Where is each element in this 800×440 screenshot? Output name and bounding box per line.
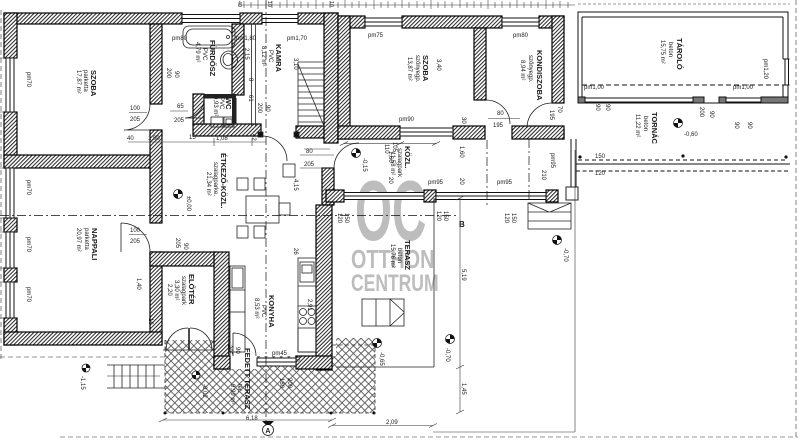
svg-text:pm1,20: pm1,20 — [762, 59, 768, 80]
svg-text:3,30 m²: 3,30 m² — [173, 280, 179, 300]
svg-text:40: 40 — [236, 1, 242, 7]
svg-text:TORNÁC: TORNÁC — [650, 112, 659, 145]
wall: elötér/konyha divider — [214, 252, 229, 369]
left boundary dashed — [0, 10, 2, 360]
left window dim ticks — [0, 58, 17, 318]
window band közl 2 — [436, 193, 546, 200]
level -0,02 elötér steps — [192, 371, 200, 379]
svg-text:beton: beton — [396, 248, 402, 263]
window konyha south — [257, 358, 296, 366]
svg-text:ÉTKEZŐ-KÖZL.: ÉTKEZŐ-KÖZL. — [219, 153, 228, 208]
svg-text:1,45: 1,45 — [460, 383, 466, 395]
svg-text:100: 100 — [130, 106, 141, 112]
svg-text:-0,60: -0,60 — [684, 132, 698, 138]
door arc wc — [185, 99, 204, 118]
svg-text:pm70: pm70 — [25, 72, 31, 88]
pier: közl band west — [326, 190, 344, 202]
konyha white floor over crosshatch — [214, 252, 336, 356]
wc small walls — [204, 94, 237, 124]
svg-text:pm1,70: pm1,70 — [287, 36, 308, 42]
wall: szoba/nappali divider — [4, 155, 162, 168]
svg-text:WC: WC — [224, 97, 233, 110]
svg-text:90: 90 — [746, 122, 752, 129]
wc toilet — [211, 117, 234, 127]
svg-text:205: 205 — [130, 117, 141, 123]
door arcs elötér entrance (double) — [166, 328, 189, 350]
svg-text:2,20: 2,20 — [166, 284, 172, 296]
svg-text:szőnyegp.: szőnyegp. — [414, 55, 420, 83]
svg-text:parketta: parketta — [82, 70, 88, 92]
level -0,70 terasz — [446, 335, 455, 344]
wall: wc left stub — [193, 94, 204, 124]
svg-text:PVC: PVC — [267, 50, 273, 63]
svg-text:-0,70: -0,70 — [444, 348, 450, 362]
svg-text:pm95: pm95 — [428, 180, 444, 186]
svg-text:20: 20 — [458, 178, 464, 185]
wall: right bldg left — [338, 16, 350, 139]
window pm70 left 4 — [6, 282, 14, 318]
svg-text:TERASZ: TERASZ — [403, 240, 412, 270]
svg-text:8,94 m²: 8,94 m² — [519, 60, 525, 80]
svg-text:30: 30 — [460, 117, 466, 124]
svg-text:8: 8 — [247, 78, 253, 82]
wall: right bldg bottom seg2 — [453, 126, 485, 139]
svg-text:4,79 m²: 4,79 m² — [194, 42, 200, 62]
svg-text:13,87 m²: 13,87 m² — [406, 57, 412, 81]
sink fürdősz — [221, 51, 238, 69]
svg-text:120: 120 — [435, 211, 441, 222]
svg-text:90: 90 — [234, 347, 240, 354]
svg-text:beton: beton — [667, 42, 673, 57]
center line vertical at 487 — [486, 140, 488, 205]
vertical line right of terasz — [574, 150, 576, 432]
svg-text:3,10: 3,10 — [292, 58, 298, 70]
dim wc row — [128, 138, 266, 146]
wall: szoba right / fürdősz left upper — [150, 24, 162, 104]
svg-text:8,12 m²: 8,12 m² — [260, 46, 266, 66]
svg-text:205: 205 — [304, 162, 315, 168]
svg-text:205: 205 — [130, 239, 141, 245]
wall: konyha south — [214, 356, 230, 369]
svg-text:2,09: 2,09 — [386, 420, 398, 426]
level markers — [82, 119, 683, 436]
tároló thin walls — [578, 12, 790, 103]
svg-text:180: 180 — [278, 378, 284, 389]
fraction lines for door labels — [129, 111, 520, 235]
wall: left outer, segment 5 — [4, 318, 17, 345]
svg-text:pm1,00: pm1,00 — [733, 85, 754, 91]
wall: kondiszoba divider — [474, 28, 486, 100]
svg-text:17,87 m²: 17,87 m² — [75, 70, 81, 94]
level -0,65 fedett terasz — [373, 339, 382, 348]
svg-text:90: 90 — [594, 104, 600, 111]
elötér threshold line — [163, 349, 214, 351]
svg-text:8,53 m²: 8,53 m² — [253, 298, 259, 318]
wall: left building top, segment 1 — [4, 13, 182, 24]
svg-text:15,76 m²: 15,76 m² — [389, 244, 395, 268]
terasz outline — [336, 198, 434, 367]
svg-text:200: 200 — [165, 68, 171, 79]
svg-text:A: A — [265, 428, 270, 435]
svg-text:pm70: pm70 — [25, 180, 31, 196]
dining table — [237, 164, 295, 238]
exterior steps left (fedett terasz) — [107, 365, 165, 388]
right boundary dashed — [795, 0, 797, 437]
wall: top right of kamra window — [298, 13, 338, 24]
svg-text:61: 61 — [247, 95, 253, 102]
section line B horizontal dashdot — [0, 215, 458, 217]
svg-text:szalagparke.: szalagparke. — [212, 162, 218, 196]
svg-text:90: 90 — [182, 243, 188, 250]
svg-text:-0,15: -0,15 — [361, 158, 367, 172]
level -0,60 tornác — [674, 119, 683, 128]
level -0,15 közl — [352, 149, 361, 158]
svg-text:pm1,00: pm1,00 — [584, 85, 605, 91]
svg-text:pm80: pm80 — [513, 33, 529, 39]
konyha counter left — [230, 266, 245, 352]
svg-text:26: 26 — [292, 248, 298, 255]
svg-text:195: 195 — [493, 123, 504, 129]
svg-text:150: 150 — [442, 211, 448, 222]
wall: kamra south — [296, 126, 338, 138]
svg-text:SZOBA: SZOBA — [421, 55, 430, 82]
svg-text:15: 15 — [189, 135, 196, 141]
door threshold white — [230, 356, 257, 369]
window pm70 left 3 — [6, 232, 14, 268]
floors — [162, 252, 376, 415]
svg-text:pm1,80: pm1,80 — [236, 36, 257, 42]
furniture and details — [107, 24, 571, 388]
wall: left outer, segment 4 — [4, 268, 17, 282]
kamra door posts — [258, 132, 299, 137]
wall: right bldg bottom seg3 — [512, 126, 564, 139]
door arc konyha south — [233, 333, 256, 356]
svg-text:CENTRUM: CENTRUM — [351, 270, 439, 296]
svg-text:szőnyegp.: szőnyegp. — [527, 55, 533, 83]
svg-text:0,93 m²: 0,93 m² — [212, 96, 218, 116]
svg-text:5,19: 5,19 — [460, 269, 466, 281]
window band közl 1 — [344, 193, 424, 200]
dim 80/205 étkező door — [300, 155, 334, 168]
svg-text:-0,02: -0,02 — [201, 384, 207, 398]
wall: right bldg top seg2 — [402, 16, 502, 28]
svg-text:ter.: ter. — [236, 384, 242, 393]
svg-text:pm90: pm90 — [399, 117, 415, 123]
svg-text:2,15: 2,15 — [243, 48, 249, 60]
door arc étkező east 80/205 — [334, 143, 359, 168]
south facade dashed left — [0, 356, 165, 358]
dim 80/205 kamra door horizontal — [304, 148, 330, 150]
fedett terasz dashed border — [165, 340, 375, 413]
svg-text:9,99 m²: 9,99 m² — [229, 384, 235, 404]
window pm70 left 2 — [6, 168, 14, 218]
svg-text:200: 200 — [286, 378, 292, 389]
svg-text:1,60: 1,60 — [387, 151, 393, 163]
exterior steps right (by terasz) — [528, 203, 571, 229]
svg-text:KONYHA: KONYHA — [267, 295, 276, 328]
window pm1,70 (kamra top) — [262, 15, 298, 23]
door arc szoba->étkező — [124, 104, 150, 130]
wall: left outer, segment 1 — [4, 13, 17, 58]
svg-text:200: 200 — [256, 103, 262, 114]
kamra stairs — [298, 62, 324, 126]
dim line under pm90 — [340, 142, 440, 146]
wall: nappali bottom — [4, 332, 162, 345]
door arc kondiszoba — [486, 100, 510, 124]
svg-text:90: 90 — [173, 71, 179, 78]
svg-text:210: 210 — [540, 170, 546, 181]
svg-text:PVC: PVC — [201, 48, 207, 61]
svg-text:FÜRDŐSZ: FÜRDŐSZ — [208, 40, 217, 77]
svg-text:80: 80 — [497, 111, 504, 117]
svg-text:KÖZL.: KÖZL. — [403, 146, 412, 169]
svg-text:80: 80 — [306, 149, 313, 155]
tornác dim lines 150/120 — [576, 164, 790, 171]
level -0,70 steps — [553, 236, 562, 245]
svg-text:TÁROLÓ: TÁROLÓ — [675, 38, 684, 70]
wall: étkező east — [322, 168, 334, 205]
elötér white floor — [162, 252, 214, 340]
section line A vertical dashdot — [265, 0, 267, 424]
fedett terasz crosshatch — [165, 338, 375, 413]
wall: right bldg right upper — [552, 16, 564, 103]
svg-text:10: 10 — [266, 1, 272, 7]
svg-text:11,22 m²: 11,22 m² — [634, 114, 640, 137]
door arc right bldg to tornác — [527, 103, 552, 128]
wall: right bldg right lower stub — [552, 130, 564, 139]
wall: right bldg bottom seg1 — [338, 126, 400, 139]
svg-text:90: 90 — [708, 111, 714, 118]
pier: közl band mid — [424, 190, 436, 202]
wall: right bldg top seg1 — [338, 16, 365, 28]
wall: wc south / kamra west band — [193, 124, 261, 136]
wall: elötér left — [150, 252, 162, 345]
bathtub — [183, 26, 235, 48]
door pm95/210 east end of band — [566, 139, 578, 200]
terasz corner dots — [164, 412, 376, 415]
svg-text:195: 195 — [548, 110, 554, 121]
svg-text:parketta: parketta — [83, 228, 89, 250]
svg-text:pm70: pm70 — [25, 287, 31, 303]
svg-text:90: 90 — [733, 122, 739, 129]
wall: right bldg top seg3 — [539, 16, 564, 28]
svg-text:205: 205 — [226, 345, 232, 356]
svg-text:90: 90 — [264, 105, 270, 112]
WALLS — [4, 13, 564, 370]
svg-text:70: 70 — [556, 106, 562, 113]
svg-text:1,60: 1,60 — [458, 146, 464, 158]
svg-text:-0,65: -0,65 — [378, 352, 384, 366]
wall: fürdősz right — [232, 24, 244, 95]
tornác bottom dashed — [578, 154, 788, 160]
wall: top between windows — [240, 13, 262, 24]
bottom dim line 6,18 — [159, 418, 336, 422]
window pm90 right bldg bottom — [400, 128, 453, 136]
svg-text:pm45: pm45 — [272, 351, 288, 357]
svg-text:15,75 m²: 15,75 m² — [659, 40, 665, 64]
pier: közl band east — [546, 190, 558, 202]
svg-text:42: 42 — [250, 134, 256, 141]
svg-text:pm70: pm70 — [25, 237, 31, 253]
svg-text:PVC: PVC — [260, 305, 266, 318]
svg-text:pm80: pm80 — [172, 36, 188, 42]
svg-text:3,40: 3,40 — [435, 59, 441, 71]
svg-text:200: 200 — [698, 107, 704, 118]
svg-text:NAPPALI: NAPPALI — [90, 228, 99, 260]
svg-text:1,08: 1,08 — [216, 136, 228, 142]
wall: elötér top — [150, 252, 216, 266]
wall: left outer, segment 3 — [4, 218, 17, 232]
tároló lintel dashed pm1,00 — [582, 84, 783, 86]
wall: konyha east — [316, 205, 332, 370]
svg-text:KONDISZOBA: KONDISZOBA — [535, 50, 544, 101]
window pm70 left 1 — [6, 58, 14, 112]
svg-text:10: 10 — [294, 356, 300, 362]
svg-text:205: 205 — [174, 238, 180, 249]
svg-text:szalagpark: szalagpark — [180, 276, 186, 306]
svg-text:ELŐTÉR: ELŐTÉR — [187, 274, 196, 305]
svg-text:40: 40 — [127, 136, 134, 142]
svg-text:120: 120 — [336, 213, 342, 224]
svg-text:150: 150 — [343, 213, 349, 224]
window pm80 right bldg — [502, 18, 539, 26]
svg-text:120: 120 — [595, 171, 606, 177]
level ±0,00 étkező — [174, 190, 183, 199]
svg-text:FEDETT TERASZ: FEDETT TERASZ — [243, 348, 252, 410]
level -1,15 left steps — [82, 364, 90, 372]
svg-text:1,00: 1,00 — [148, 136, 160, 142]
svg-text:-0,70: -0,70 — [562, 248, 568, 262]
watermark OC — [351, 163, 439, 296]
svg-text:20,97 m²: 20,97 m² — [75, 228, 81, 252]
bottom dim line 2,09 — [328, 424, 437, 428]
svg-text:65: 65 — [177, 104, 184, 110]
svg-text:±0,00: ±0,00 — [185, 196, 191, 212]
window pm1,80 (fürdősz top) — [182, 15, 240, 23]
svg-text:150: 150 — [595, 154, 606, 160]
exterior steps terasz bottom — [362, 299, 404, 326]
svg-text:beton: beton — [642, 116, 648, 131]
konyha counter right with sink and stove — [298, 258, 316, 352]
svg-text:-1,15: -1,15 — [79, 376, 85, 390]
vertical dim 5,19/1,45 — [456, 196, 464, 414]
svg-text:10: 10 — [328, 1, 334, 7]
wall: konyha south 2 — [296, 356, 332, 369]
svg-text:16: 16 — [147, 318, 153, 325]
svg-text:100: 100 — [130, 228, 141, 234]
svg-text:205: 205 — [174, 118, 185, 124]
window pm75 right bldg — [365, 18, 402, 26]
svg-text:90: 90 — [604, 104, 610, 111]
wall: szoba right lower — [150, 130, 162, 223]
wall: kamra right (main house east upper) — [324, 13, 338, 143]
door arc étkező->kamra passage — [262, 136, 287, 161]
svg-text:20: 20 — [387, 177, 393, 184]
svg-text:6,18: 6,18 — [246, 416, 258, 422]
svg-text:pm75: pm75 — [368, 33, 384, 39]
svg-text:szalagpark: szalagpark — [396, 148, 402, 178]
svg-text:120: 120 — [503, 213, 509, 224]
svg-text:B: B — [459, 220, 465, 229]
svg-text:4,15: 4,15 — [292, 179, 298, 191]
kamra west partition thin — [252, 24, 256, 126]
svg-text:KAMRA: KAMRA — [274, 44, 283, 72]
svg-text:21,34 m²: 21,34 m² — [205, 172, 211, 196]
svg-text:1,40: 1,40 — [135, 278, 141, 290]
svg-text:150: 150 — [510, 213, 516, 224]
top ruler — [238, 0, 575, 9]
section marker A — [262, 421, 274, 436]
tároló bottom wall with windows — [578, 97, 788, 103]
bottom boundary dashed — [60, 436, 798, 438]
svg-text:pm95: pm95 — [497, 180, 513, 186]
svg-text:pm95: pm95 — [549, 153, 555, 169]
svg-text:SZOBA: SZOBA — [89, 70, 98, 97]
center line vertical at 529 — [528, 139, 530, 202]
wall: left outer, segment 2 — [4, 112, 17, 168]
svg-text:2,91: 2,91 — [306, 299, 312, 311]
door arc nappali — [121, 223, 150, 252]
